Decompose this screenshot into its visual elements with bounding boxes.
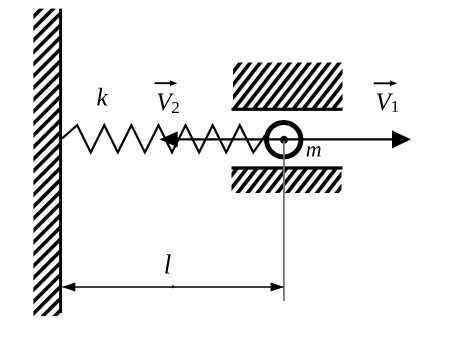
dimension arrowhead right bbox=[271, 283, 284, 292]
label V1 with vector arrow bbox=[374, 81, 400, 117]
mass center dot bbox=[280, 136, 288, 144]
spring k (zigzag) bbox=[62, 125, 270, 152]
svg-text:1: 1 bbox=[391, 97, 400, 116]
label V2 with vector arrow bbox=[155, 80, 180, 116]
wall (hatched) bbox=[33, 9, 61, 317]
svg-text:l: l bbox=[164, 250, 172, 280]
dimension arrowhead left bbox=[62, 283, 75, 292]
svg-text:2: 2 bbox=[171, 98, 180, 117]
dimension midpoint tick bbox=[172, 285, 175, 288]
velocity line (through mass) bbox=[177, 138, 393, 140]
dimension line l bbox=[63, 286, 284, 288]
svg-text:m: m bbox=[306, 137, 322, 162]
upper block bottom edge line bbox=[232, 108, 343, 111]
mass circle m bbox=[267, 123, 301, 157]
arrowhead V1 (right) bbox=[392, 130, 411, 148]
wall right edge line bbox=[59, 9, 62, 313]
vertical reference line (gray) bbox=[283, 141, 285, 301]
lower channel block (hatched) bbox=[232, 170, 342, 194]
upper channel block (hatched) bbox=[233, 63, 343, 109]
arrowhead V2 (left) bbox=[160, 131, 178, 147]
svg-text:k: k bbox=[97, 85, 109, 112]
lower block top edge line bbox=[232, 166, 343, 169]
